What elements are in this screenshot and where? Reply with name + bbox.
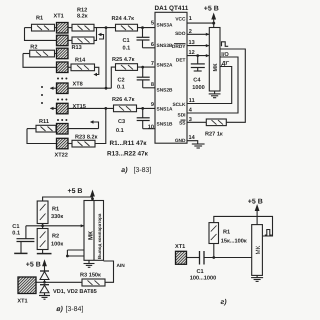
- svg-text:R2: R2: [30, 44, 37, 50]
- wire VCC to +5V: [187, 22, 214, 24]
- node divider: [41, 224, 44, 227]
- svg-text:R13...R22 47к: R13...R22 47к: [107, 151, 149, 158]
- wire C3 to pin10: [143, 128, 155, 130]
- svg-text:XT8: XT8: [73, 82, 83, 88]
- svg-text:100к: 100к: [51, 241, 63, 247]
- capacitor C3: [116, 108, 150, 133]
- left column dots: [41, 86, 43, 104]
- pulse symbol at MK I/O: [222, 42, 229, 47]
- electrode pad XT8: [57, 82, 83, 94]
- ground C1v: [14, 252, 27, 254]
- resistor R25: [112, 57, 138, 70]
- electrode pad XT4: [57, 62, 69, 73]
- MCU box MK: [209, 28, 220, 92]
- wire R23 up to R26 node, vertical V3: [95, 108, 106, 143]
- ground VD2: [39, 296, 50, 300]
- svg-text:SS: SS: [179, 121, 186, 127]
- electrode pad XT1: [54, 14, 69, 33]
- ground under MK g: [251, 275, 263, 281]
- caption v): [56, 305, 83, 313]
- wire: [68, 66, 71, 68]
- svg-text:SNS3A: SNS3A: [157, 22, 174, 28]
- tap arrow XT15 left: [50, 107, 57, 110]
- svg-text:5: 5: [151, 21, 154, 27]
- wire R1 top to +5V: [43, 197, 93, 201]
- svg-text:МК: МК: [87, 231, 94, 240]
- wire pad to node: [36, 281, 45, 283]
- svg-text:R3 150к: R3 150к: [80, 272, 101, 278]
- svg-text:DRDY: DRDY: [172, 44, 186, 50]
- resistor R1 g: [209, 223, 247, 245]
- node clamp: [43, 281, 46, 284]
- svg-text:C2: C2: [118, 78, 125, 84]
- wire divider to MK: [26, 225, 84, 227]
- svg-text:330к: 330к: [51, 214, 63, 220]
- wire XT8 right: [68, 87, 111, 89]
- svg-text:SDI: SDI: [178, 112, 187, 118]
- svg-text:SNS1A: SNS1A: [157, 107, 174, 113]
- resistor R13: [72, 37, 95, 51]
- resistor R23: [72, 134, 98, 147]
- pin numbers left: [148, 21, 154, 131]
- svg-text:R27 1к: R27 1к: [205, 132, 223, 138]
- electrode pad XT15: [57, 103, 86, 114]
- wire row1 to R24: [94, 27, 116, 29]
- feedback loop left of MK: [66, 250, 84, 257]
- wire C2 to pin8: [143, 87, 155, 89]
- wire R1-R2 junction: [42, 224, 44, 229]
- capacitor C1: [123, 28, 150, 52]
- svg-text:XT15: XT15: [73, 104, 86, 110]
- wire C1 to pin6: [143, 47, 156, 49]
- vertical V1 top tap to XT8: [105, 28, 107, 89]
- wire R1 top loop to MK pin: [214, 216, 273, 236]
- svg-text:МК: МК: [255, 245, 262, 254]
- ground R2: [37, 250, 52, 254]
- svg-text:XT1: XT1: [175, 244, 185, 250]
- +5V supply v: [68, 188, 95, 201]
- svg-text:7: 7: [151, 61, 154, 67]
- svg-text:С1: С1: [197, 269, 204, 275]
- capacitor C1 g: [190, 251, 216, 281]
- svg-text:[3-84]: [3-84]: [66, 305, 84, 313]
- wire 2 loop to SDI: [187, 57, 238, 113]
- wire: [25, 27, 32, 29]
- svg-text:1000: 1000: [192, 85, 204, 91]
- svg-text:DET: DET: [176, 57, 186, 63]
- svg-text:1: 1: [189, 16, 192, 22]
- svg-text:R2: R2: [52, 234, 59, 240]
- svg-text:+5 В: +5 В: [204, 6, 219, 13]
- svg-text:R1: R1: [52, 207, 59, 213]
- ground under MK: [209, 91, 221, 98]
- node pin9: [141, 107, 144, 110]
- svg-text:+5 В: +5 В: [26, 262, 41, 269]
- svg-text:SCLK: SCLK: [172, 102, 186, 108]
- resistor R27: [205, 119, 226, 138]
- wire R3 to AIN: [104, 261, 114, 282]
- MCU box MK v: [84, 201, 104, 261]
- wire R25 to pin7: [138, 66, 156, 68]
- node top tap: [105, 26, 108, 29]
- tap arrow row2: [99, 35, 104, 40]
- overline SS: [181, 119, 186, 121]
- node R1 top join: [91, 197, 94, 200]
- svg-text:R1...R11 47к: R1...R11 47к: [110, 140, 148, 147]
- wire pad to C1: [187, 257, 200, 259]
- pin numbers right: [189, 16, 196, 141]
- wire R11 row right: [68, 128, 99, 130]
- wire DET to MK: [187, 55, 209, 57]
- tap arrow XT8 left: [50, 87, 57, 90]
- svg-text:8.2к: 8.2к: [77, 14, 88, 20]
- resistor R1v: [37, 201, 63, 224]
- diode VD2: [40, 285, 97, 296]
- overline DRDY: [174, 43, 186, 45]
- wire I/O loop: [220, 49, 245, 122]
- note resistor values: [107, 140, 149, 158]
- svg-text:100...1000: 100...1000: [190, 275, 216, 281]
- svg-text:0.1: 0.1: [116, 128, 124, 134]
- svg-text:г): г): [221, 298, 228, 306]
- meander symbol: [265, 230, 272, 236]
- svg-text:SNS3B: SNS3B: [157, 43, 174, 49]
- resistor R2v: [37, 229, 63, 250]
- svg-text:C3: C3: [118, 119, 125, 125]
- vertical V2 R25 to XT8: [111, 67, 115, 88]
- svg-text:C1: C1: [123, 38, 130, 44]
- node pin7: [141, 66, 144, 69]
- wire: [27, 128, 36, 130]
- node C4 tap: [196, 54, 199, 57]
- svg-text:9: 9: [151, 102, 154, 108]
- wire R1 bottom: [213, 244, 215, 258]
- +5V supply g: [248, 198, 263, 224]
- wire: [23, 53, 30, 55]
- svg-text:XT1: XT1: [54, 14, 64, 20]
- wire: [68, 27, 72, 29]
- resistor R11: [36, 119, 56, 132]
- wire SS to R27: [187, 121, 206, 123]
- electrode pad XT1 v: [17, 277, 36, 305]
- tap arrow row4: [95, 67, 99, 74]
- wire GND pin14: [187, 141, 198, 144]
- resistor R24: [112, 16, 138, 31]
- capacitor C2: [117, 67, 150, 90]
- svg-text:XT1: XT1: [17, 299, 27, 305]
- resistor R26: [112, 97, 137, 112]
- dots between XT15 and R11: [57, 119, 67, 121]
- svg-text:SDO: SDO: [175, 31, 186, 37]
- svg-text:AIN: AIN: [117, 263, 126, 269]
- svg-text:R23 8.2к: R23 8.2к: [75, 134, 98, 140]
- electrode pad XT2: [57, 35, 69, 46]
- dots between row4 and XT8: [57, 78, 67, 80]
- wire: [55, 53, 57, 55]
- svg-text:+5 В: +5 В: [248, 198, 263, 205]
- resistor R14: [71, 57, 95, 70]
- wire: [68, 39, 72, 41]
- capacitor C1v: [12, 224, 34, 253]
- node: [212, 22, 215, 25]
- svg-text:C4: C4: [193, 77, 201, 83]
- svg-text:R13: R13: [72, 45, 82, 51]
- svg-text:10: 10: [148, 124, 154, 130]
- IC DA1 QT411: [155, 5, 189, 143]
- svg-text:6: 6: [151, 42, 154, 48]
- resistor R1: [32, 15, 55, 31]
- svg-text:R25 4.7к: R25 4.7к: [112, 57, 135, 63]
- left loop vertical rows3-4: [23, 54, 57, 68]
- +5V supply v2: [26, 259, 47, 271]
- dots between XT8 and XT15: [57, 99, 67, 101]
- wire 3 loop to SCLK: [187, 67, 232, 104]
- caption a): [121, 166, 151, 174]
- capacitor C4: [191, 56, 205, 91]
- svg-text:МК: МК: [213, 63, 219, 72]
- wire R24 to pin5: [138, 27, 156, 29]
- pin labels left: [157, 22, 174, 127]
- resistor R3: [80, 272, 105, 286]
- MCU box MK g: [252, 225, 263, 276]
- electrode pad XT3: [57, 48, 69, 59]
- svg-text:DA1 QT411: DA1 QT411: [155, 5, 189, 12]
- svg-text:0.1: 0.1: [123, 45, 131, 51]
- svg-text:C1: C1: [12, 224, 19, 230]
- svg-text:а): а): [121, 166, 128, 174]
- electrode pad XT1 g: [175, 244, 187, 264]
- svg-text:0.1: 0.1: [12, 231, 20, 237]
- wire C1 to MK: [204, 257, 252, 259]
- svg-text:R26 4.7к: R26 4.7к: [112, 97, 135, 103]
- resistor R2: [30, 44, 55, 57]
- tap arrow R11 row: [92, 122, 99, 129]
- left loop vertical rows R11-R23: [27, 129, 57, 144]
- ground under MK v: [84, 260, 95, 267]
- svg-text:SNS1B: SNS1B: [157, 121, 174, 127]
- svg-text:VD1, VD2 BAT85: VD1, VD2 BAT85: [53, 289, 97, 295]
- svg-text:XT22: XT22: [55, 153, 68, 159]
- node V3 top: [104, 107, 107, 110]
- resistor R12: [72, 7, 94, 31]
- +5V supply: [204, 6, 219, 28]
- node pin5: [141, 26, 144, 29]
- pin labels right: [172, 17, 186, 144]
- svg-text:0.1: 0.1: [117, 84, 125, 90]
- svg-text:VCC: VCC: [175, 17, 186, 23]
- svg-text:SNS2B: SNS2B: [157, 87, 174, 93]
- svg-text:R14: R14: [75, 57, 86, 63]
- diode VD1: [40, 271, 49, 282]
- svg-text:15к...100к: 15к...100к: [221, 239, 247, 245]
- ground symbol IC: [192, 144, 205, 148]
- svg-text:+5 В: +5 В: [68, 188, 83, 195]
- electrode pad XT22: [55, 138, 69, 158]
- wire R13 up to row1: [94, 28, 97, 41]
- svg-text:[3-83]: [3-83]: [134, 166, 152, 174]
- svg-text:R12: R12: [77, 7, 87, 13]
- wire XT15 to R26: [68, 107, 114, 109]
- svg-text:в): в): [56, 305, 63, 313]
- node: [105, 87, 108, 90]
- wire: [68, 143, 72, 145]
- wire DRDY to MK: [187, 45, 209, 47]
- svg-text:R1: R1: [36, 15, 43, 21]
- wire R26 to pin9: [137, 107, 156, 109]
- svg-text:R24 4.7к: R24 4.7к: [112, 16, 135, 22]
- svg-text:R1: R1: [223, 229, 230, 235]
- wire: [55, 128, 58, 130]
- wire node to R3: [45, 281, 83, 283]
- left loop vertical rows1-2: [25, 28, 57, 41]
- svg-text:SNS2A: SNS2A: [157, 62, 174, 68]
- wire SDO to MK: [187, 33, 209, 35]
- svg-text:GND: GND: [175, 138, 186, 144]
- electrode pad XT21: [57, 124, 69, 135]
- node R1 bottom: [212, 256, 215, 259]
- svg-text:8: 8: [151, 82, 154, 88]
- svg-text:Вывод компаратора: Вывод компаратора: [97, 213, 102, 259]
- svg-text:R11: R11: [39, 119, 49, 125]
- wire: [55, 27, 57, 29]
